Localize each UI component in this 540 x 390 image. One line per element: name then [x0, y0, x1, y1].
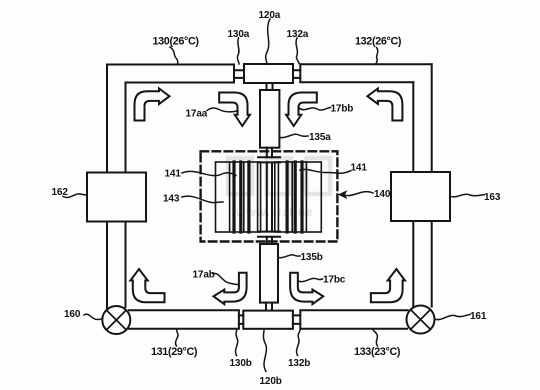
watermark: [228, 158, 330, 219]
svg-text:130(26°C): 130(26°C): [153, 36, 200, 48]
leader 17aa: [207, 108, 238, 112]
box 162: [87, 173, 146, 222]
svg-text:17ab: 17ab: [193, 270, 215, 281]
leader 141 right: [300, 169, 351, 173]
leader 17bb: [299, 108, 331, 111]
stem between blocks: [267, 162, 272, 231]
leader 130(26C): [170, 47, 178, 65]
heat exchanger top manifold bar: [258, 157, 280, 162]
svg-text:143: 143: [163, 194, 180, 205]
leader 120b: [263, 331, 266, 372]
fitting 130a neck: [234, 70, 244, 78]
arrow flow bottom-right corner: [371, 269, 405, 302]
leader 132b: [296, 330, 300, 356]
block 143 left heat exchanger: [216, 162, 261, 232]
leader 140 with arrowhead: [343, 192, 373, 196]
svg-text:132b: 132b: [288, 358, 310, 369]
leader 132a: [296, 38, 299, 64]
svg-text:132a: 132a: [287, 29, 309, 40]
svg-text:132(26°C): 132(26°C): [355, 36, 402, 48]
leader 163: [450, 194, 484, 197]
svg-text:131(29°C): 131(29°C): [151, 346, 198, 358]
block right heat exchanger: [275, 162, 322, 232]
leader 132(26C): [376, 48, 378, 65]
box 163: [391, 172, 450, 221]
leader 120a: [266, 19, 270, 64]
pipe bottom-left horizontal: [129, 310, 239, 329]
svg-text:140: 140: [374, 189, 391, 200]
heat exchanger bottom manifold bar: [258, 232, 280, 237]
svg-text:17aa: 17aa: [186, 109, 208, 120]
stem below dashed box: [267, 237, 272, 244]
svg-text:163: 163: [484, 192, 501, 203]
svg-text:141: 141: [351, 163, 368, 174]
pipe 135a wide segment: [260, 90, 279, 148]
leader 161: [435, 315, 471, 320]
junction box 120a: [244, 64, 293, 83]
leader 17ab: [213, 273, 239, 284]
pipe 135b wide segment: [260, 244, 278, 303]
stem above 120b: [266, 303, 272, 311]
pipe 131 left vertical: [107, 65, 126, 309]
arrow flow 17bc: [290, 273, 323, 305]
pipe 132 top-right horizontal: [300, 64, 431, 82]
pipe 130 top-left horizontal: [107, 65, 234, 83]
svg-text:160: 160: [64, 309, 81, 320]
leader 133(23C): [373, 329, 378, 346]
arrow flow 17aa: [219, 93, 250, 127]
valve 161: [407, 306, 435, 334]
stem through dashed box top: [267, 148, 272, 158]
svg-text:135a: 135a: [309, 132, 331, 143]
leader 135a: [280, 134, 309, 137]
fitting 130b neck: [239, 315, 243, 324]
leader 162: [63, 194, 87, 198]
valve 160: [102, 306, 130, 334]
pipe 133 right vertical: [413, 64, 431, 306]
leader 130b: [235, 329, 237, 356]
svg-text:17bb: 17bb: [331, 104, 354, 115]
leader 135b: [279, 255, 301, 258]
fitting 132a neck: [293, 70, 300, 78]
svg-text:130a: 130a: [228, 29, 250, 40]
svg-text:120b: 120b: [260, 376, 282, 387]
leader 160: [84, 314, 102, 319]
leader 17bc: [298, 278, 322, 281]
arrow flow 17bb: [286, 93, 317, 127]
pipe bottom-right horizontal: [300, 310, 407, 329]
svg-text:161: 161: [470, 311, 487, 322]
junction box 120b: [243, 311, 293, 329]
leader 143: [182, 196, 223, 203]
leader 130a: [237, 38, 239, 64]
svg-text:17bc: 17bc: [323, 275, 346, 286]
dashed enclosure 140: [201, 151, 338, 241]
stem below 120a: [267, 83, 273, 90]
svg-text:162: 162: [52, 187, 69, 198]
arrow flow top-left corner: [135, 89, 170, 121]
leader 131(29C): [175, 329, 178, 346]
arrow flow top-right corner: [367, 89, 402, 121]
fitting 132b neck: [293, 315, 300, 324]
svg-text:130b: 130b: [230, 358, 252, 369]
svg-text:120a: 120a: [259, 10, 281, 21]
arrow flow 17ab: [214, 273, 247, 305]
arrow flow bottom-left corner: [130, 269, 164, 302]
svg-text:135b: 135b: [301, 252, 323, 263]
svg-text:133(23°C): 133(23°C): [354, 346, 401, 358]
leader 141 left: [182, 171, 236, 175]
svg-text:141: 141: [165, 169, 182, 180]
